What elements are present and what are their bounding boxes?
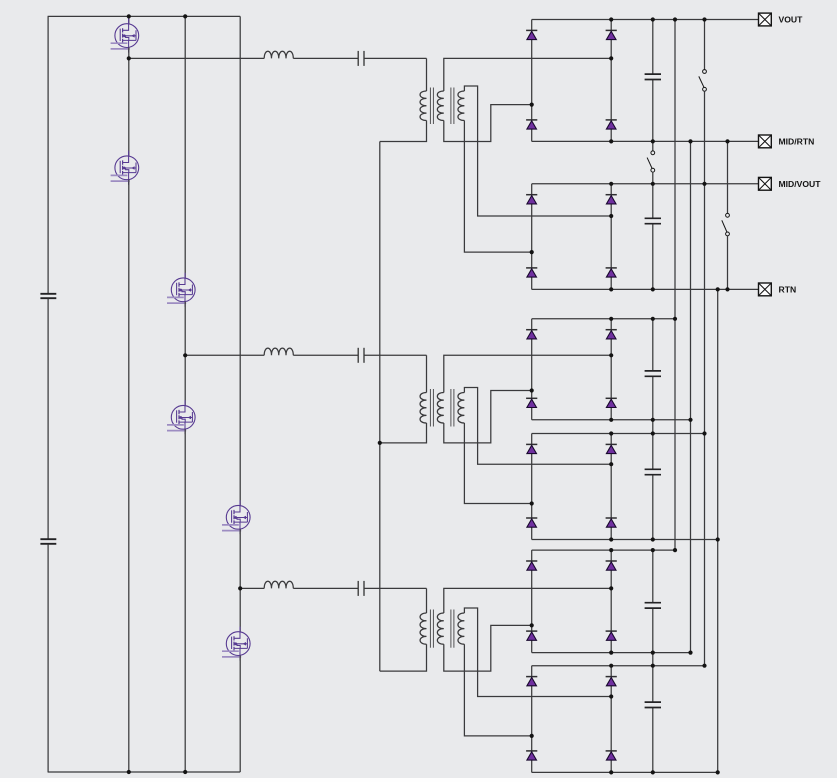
- wire switch S3 lower stub: [652, 172, 654, 184]
- diode D3: [526, 120, 537, 129]
- transformer T2 secondary winding 2: [458, 393, 464, 424]
- transformer T2 core 2: [451, 389, 454, 427]
- capacitor C9 output filter: [645, 434, 661, 540]
- wire rectifier 2 negative rail: [532, 288, 759, 290]
- wire secondary1 bottom to rectifier: [444, 105, 532, 142]
- wire switch S2 lower stub: [727, 236, 729, 290]
- label MID/VOUT: [779, 179, 822, 189]
- wire drop to primary: [426, 58, 428, 91]
- wire rectifier 6 right leg: [610, 666, 612, 773]
- junction right midpoint: [609, 353, 613, 357]
- wire capacitor to transformer: [364, 587, 427, 589]
- junction primary star: [378, 441, 382, 445]
- wire rectifier 3 positive rail: [532, 318, 675, 320]
- wire secondary1 bottom to rectifier: [444, 391, 532, 443]
- transformer T1 secondary winding 2: [458, 91, 464, 121]
- transformer T2 secondary winding 1: [437, 393, 443, 424]
- junction left midpoint: [530, 734, 534, 738]
- diode D6: [606, 195, 617, 204]
- wire drop to primary: [426, 588, 428, 613]
- terminal MID/VOUT: [759, 177, 772, 190]
- wire rectifier 6 negative rail: [532, 771, 718, 773]
- wire switch S2 upper stub: [727, 141, 729, 213]
- diode D11: [526, 398, 537, 407]
- transformer T1 core 1: [430, 88, 433, 125]
- transformer T1 primary winding: [420, 91, 426, 121]
- wire rectifier 6 positive rail: [532, 665, 705, 667]
- capacitor C4 resonant series: [358, 348, 364, 363]
- wire rectifier 4 right leg: [610, 434, 612, 540]
- junction right midpoint: [609, 586, 613, 590]
- diode D21: [526, 677, 537, 686]
- transistor Q1 high-side MOSFET: [111, 19, 139, 53]
- svg-text:MID/RTN: MID/RTN: [779, 137, 815, 147]
- wire inductor to capacitor: [293, 354, 358, 356]
- wire phase node to inductor: [129, 57, 264, 59]
- transformer T3 core 2: [451, 610, 454, 648]
- wire VOUT bus: [674, 20, 676, 551]
- wire rectifier 3 left leg: [531, 319, 533, 420]
- wire input left lower: [47, 544, 49, 772]
- wire MID/VOUT bus lower: [704, 91, 706, 666]
- wire input bottom rail: [48, 771, 241, 773]
- wire Q5 source to node: [239, 529, 241, 632]
- wire rectifier 1 left leg: [531, 20, 533, 142]
- wire mid link phase B: [652, 420, 654, 434]
- transformer T1 secondary winding 1: [437, 91, 443, 121]
- diode D10: [606, 330, 617, 339]
- wire input left middle: [47, 299, 49, 539]
- wire secondary2 bottom to rectifier: [464, 121, 531, 253]
- switch S1 VOUT to MID/VOUT: [699, 70, 707, 92]
- transistor Q6 low-side MOSFET: [222, 627, 250, 661]
- junction right midpoint: [609, 214, 613, 218]
- junction left midpoint: [530, 623, 534, 627]
- wire rectifier 1 right leg: [610, 20, 612, 142]
- wire primary return: [380, 121, 427, 142]
- wire rectifier 4 left leg: [531, 434, 533, 540]
- wire rectifier 3 negative rail: [532, 419, 691, 421]
- transformer T3 secondary winding 1: [437, 613, 443, 644]
- diode D13: [526, 444, 537, 453]
- wire rectifier 5 right leg: [610, 550, 612, 653]
- wire drain Q5: [239, 16, 241, 505]
- capacitor C7 output filter: [645, 184, 661, 290]
- wire secondary1 top to rectifier: [444, 588, 611, 613]
- wire secondary2 top to rectifier: [464, 388, 611, 465]
- terminal MID/RTN: [759, 135, 772, 148]
- inductor L3 resonant: [264, 581, 293, 588]
- wire mid link phase C: [652, 653, 654, 666]
- inductor L1 resonant: [264, 51, 293, 58]
- diode D9: [526, 330, 537, 339]
- wire Q2 source to bottom rail: [128, 180, 130, 772]
- diode D16: [606, 518, 617, 527]
- junction left midpoint: [530, 103, 534, 107]
- capacitor C10 output filter: [645, 550, 661, 653]
- junction right midpoint: [609, 462, 613, 466]
- capacitor C1 input upper: [40, 294, 56, 298]
- wire capacitor to transformer: [364, 57, 427, 59]
- wire rectifier 4 positive rail: [532, 433, 705, 435]
- label VOUT: [779, 15, 804, 25]
- diode D19: [526, 631, 537, 640]
- wire phase node to inductor: [240, 587, 264, 589]
- wire MID/VOUT bus upper: [704, 20, 706, 70]
- wire switch S3 upper stub: [652, 141, 654, 151]
- switch S2 MID/RTN to RTN: [722, 213, 730, 235]
- wire phase node to inductor: [185, 354, 264, 356]
- wire Q3 source to node: [184, 302, 186, 406]
- capacitor C8 output filter: [645, 319, 661, 420]
- junction left midpoint: [530, 501, 534, 505]
- wire primary return: [380, 423, 427, 443]
- transistor Q2 low-side MOSFET: [111, 151, 139, 185]
- label MID/RTN: [779, 137, 815, 147]
- diode D1: [526, 30, 537, 39]
- wire rectifier 2 left leg: [531, 184, 533, 290]
- terminal RTN: [759, 283, 772, 296]
- capacitor C6 output filter: [645, 20, 661, 142]
- wire inductor to capacitor: [293, 57, 358, 59]
- wire rectifier 4 negative rail: [532, 539, 718, 541]
- diode D2: [606, 30, 617, 39]
- wire Q4 source to bottom rail: [184, 429, 186, 772]
- svg-text:RTN: RTN: [779, 285, 797, 295]
- wire RTN bus: [717, 289, 719, 772]
- capacitor C2 input lower: [40, 539, 56, 544]
- transistor Q5 high-side MOSFET: [222, 500, 250, 534]
- transformer T2 primary winding: [420, 393, 426, 424]
- wire rectifier 5 positive rail: [532, 549, 675, 551]
- junction right midpoint: [609, 56, 613, 60]
- wire secondary2 top to rectifier: [464, 608, 611, 697]
- transformer T2 core 1: [430, 389, 433, 427]
- diode D15: [526, 518, 537, 527]
- diode D4: [606, 120, 617, 129]
- junction right midpoint: [609, 694, 613, 698]
- wire drain Q3: [184, 16, 186, 278]
- transformer T3 primary winding: [420, 613, 426, 644]
- wire primary star bus: [379, 142, 381, 672]
- junction left midpoint: [530, 250, 534, 254]
- wire rectifier 1 positive rail: [532, 19, 759, 21]
- diode D20: [606, 631, 617, 640]
- terminal VOUT: [759, 13, 772, 26]
- wire secondary2 bottom to rectifier: [464, 644, 531, 736]
- inductor L2 resonant: [264, 348, 293, 355]
- capacitor C5 resonant series: [358, 581, 364, 596]
- transistor Q4 low-side MOSFET: [167, 400, 195, 434]
- wire drop to primary: [426, 355, 428, 392]
- wire secondary1 top to rectifier: [444, 58, 611, 91]
- wire rectifier 3 right leg: [610, 319, 612, 420]
- wire rectifier 2 positive rail: [532, 183, 759, 185]
- wire secondary1 top to rectifier: [444, 355, 611, 392]
- diode D5: [526, 195, 537, 204]
- diode D12: [606, 398, 617, 407]
- junction left midpoint: [530, 388, 534, 392]
- diode D24: [606, 751, 617, 760]
- wire Q1 source to node: [128, 47, 130, 156]
- wire rectifier 2 right leg: [610, 184, 612, 290]
- diode D17: [526, 561, 537, 570]
- wire secondary2 top to rectifier: [464, 86, 611, 216]
- wire input top rail: [48, 15, 241, 17]
- wire capacitor to transformer: [364, 354, 427, 356]
- wire rectifier 1 negative rail: [532, 140, 759, 142]
- switch S3 MID/RTN to MID/VOUT: [647, 151, 655, 172]
- transformer T3 secondary winding 2: [458, 613, 464, 644]
- capacitor C3 resonant series: [358, 51, 364, 66]
- wire Q6 source to bottom rail: [239, 655, 241, 772]
- svg-text:MID/VOUT: MID/VOUT: [779, 179, 822, 189]
- label RTN: [779, 285, 797, 295]
- wire rectifier 6 left leg: [531, 666, 533, 773]
- diode D8: [606, 268, 617, 277]
- wire primary return: [380, 644, 427, 671]
- diode D23: [526, 751, 537, 760]
- transistor Q3 high-side MOSFET: [167, 273, 195, 307]
- wire MID/RTN bus: [690, 141, 692, 652]
- wire inductor to capacitor: [293, 587, 358, 589]
- wire secondary2 bottom to rectifier: [464, 423, 531, 504]
- svg-text:VOUT: VOUT: [779, 15, 804, 25]
- wire input left upper: [47, 16, 49, 293]
- transformer T1 core 2: [451, 88, 454, 125]
- wire rectifier 5 left leg: [531, 550, 533, 653]
- transformer T3 core 1: [430, 610, 433, 648]
- diode D14: [606, 444, 617, 453]
- diode D22: [606, 677, 617, 686]
- capacitor C11 output filter: [645, 666, 661, 773]
- diode D7: [526, 268, 537, 277]
- wire secondary1 bottom to rectifier: [444, 625, 532, 671]
- wire rectifier 5 negative rail: [532, 652, 691, 654]
- wire drain Q1: [128, 16, 130, 23]
- diode D18: [606, 561, 617, 570]
